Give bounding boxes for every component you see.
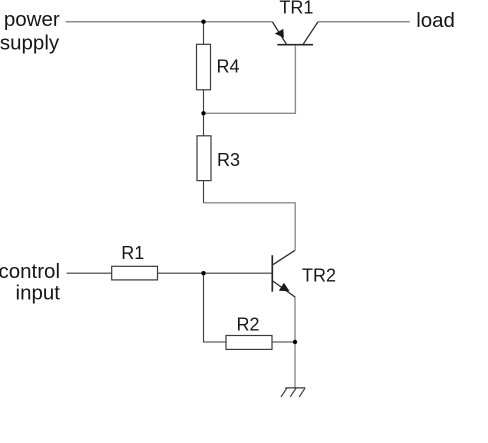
node: R1/R2/base junction bbox=[201, 271, 205, 275]
wire: R2 to emitter junction bbox=[272, 341, 295, 343]
node: R2/emitter junction bbox=[293, 340, 297, 344]
wire: R3 bottom to TR2 collector bbox=[204, 203, 296, 251]
wire: TR1 collector to load bbox=[318, 21, 410, 23]
wire: junction down to R2 bbox=[204, 273, 227, 342]
resistor R4 bbox=[197, 22, 211, 114]
resistor R1 bbox=[112, 266, 158, 280]
svg-text:R2: R2 bbox=[236, 315, 259, 335]
svg-text:TR2: TR2 bbox=[302, 266, 336, 286]
wire: R1 to node junction to TR2 base bbox=[158, 272, 272, 274]
svg-text:input: input bbox=[16, 282, 61, 305]
svg-text:TR1: TR1 bbox=[279, 0, 313, 17]
node: R4/R3 junction bbox=[201, 111, 205, 115]
svg-text:supply: supply bbox=[0, 31, 60, 54]
transistor TR1 (PNP) bbox=[272, 22, 318, 45]
ground bbox=[281, 388, 305, 397]
wire: TR2 emitter down to ground bbox=[294, 297, 296, 389]
node: power rail junction bbox=[201, 20, 205, 24]
wire: R4/R3 junction to TR1 base bbox=[204, 46, 296, 114]
wire: power supply rail to TR1 emitter bbox=[66, 21, 273, 23]
wire: control input to R1 bbox=[67, 272, 112, 274]
svg-text:R4: R4 bbox=[216, 56, 239, 76]
svg-text:control: control bbox=[0, 260, 60, 283]
svg-text:power: power bbox=[4, 8, 60, 31]
resistor R3 bbox=[197, 113, 211, 203]
svg-text:R3: R3 bbox=[217, 150, 240, 170]
resistor R2 bbox=[226, 336, 272, 350]
svg-text:R1: R1 bbox=[121, 243, 144, 263]
transistor TR2 (NPN) bbox=[272, 250, 295, 297]
svg-text:load: load bbox=[416, 9, 455, 32]
